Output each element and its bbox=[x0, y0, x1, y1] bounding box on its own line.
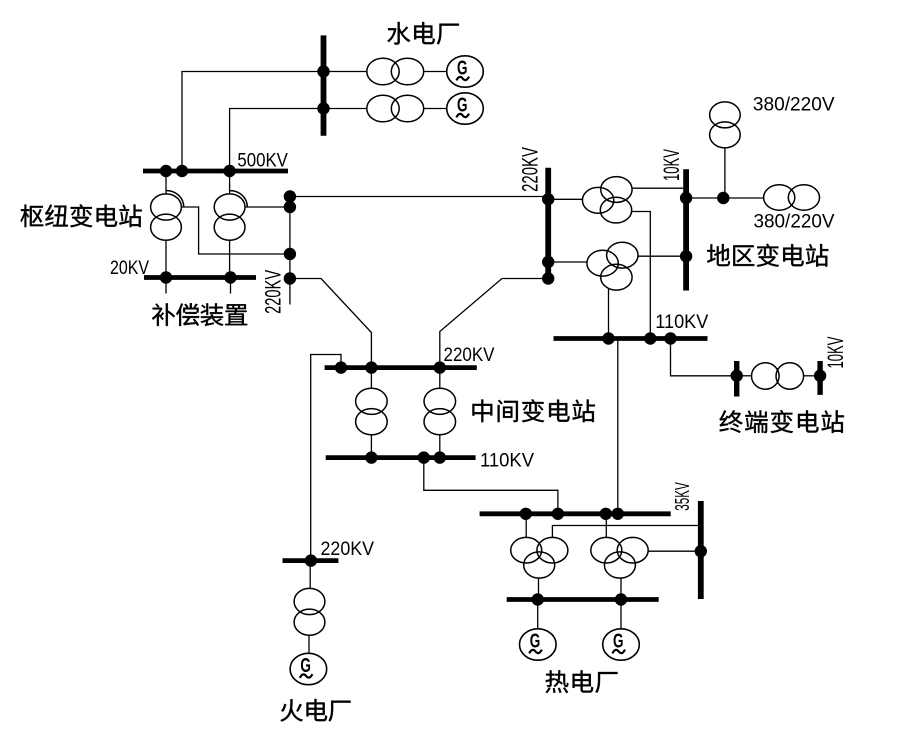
wire terminal bar to transformer bbox=[739, 375, 752, 377]
wire gen bus to G1 bbox=[537, 600, 539, 629]
junction terminal right bbox=[814, 370, 826, 382]
wire middle T2 secondary bbox=[439, 435, 441, 458]
wire 10KV bus to 380/220V transformers bbox=[686, 197, 764, 199]
svg-text:380/220V: 380/220V bbox=[753, 94, 835, 115]
wire regional 110KV to terminal substation bbox=[671, 339, 734, 376]
junction node tertiary T1 bbox=[284, 248, 296, 260]
junction middle 220KV T2 bbox=[434, 361, 446, 373]
transformer hub T1 (autotransformer) bbox=[151, 194, 182, 220]
label 热电厂 (thermal power plant) bbox=[546, 670, 618, 693]
label 火电厂 (fire power plant) bbox=[280, 699, 350, 722]
junction middle 110KV T1 bbox=[365, 451, 377, 463]
transformer hydro unit 2 bbox=[367, 95, 399, 122]
transformer regional lower (3-winding) bbox=[587, 250, 618, 276]
transformer fire plant bbox=[294, 588, 325, 614]
wire regional upper tertiary to 110KV bus bbox=[632, 212, 651, 339]
svg-text:10KV: 10KV bbox=[659, 149, 684, 181]
junction 500KV bus hydro line1 bbox=[176, 165, 188, 177]
svg-text:110KV: 110KV bbox=[655, 311, 708, 333]
wire compensation stub 1 bbox=[165, 278, 167, 294]
wire transformer to right bar bbox=[804, 375, 818, 377]
wire regional lower secondary to 10KV bus bbox=[638, 255, 686, 257]
junction regional 110KV lower-T tertiary bbox=[602, 332, 614, 344]
wire transformer2 to generator2 bbox=[424, 108, 447, 110]
label 中间变电站 (middle substation) bbox=[472, 399, 594, 422]
wire thermal T1 tertiary to gen bus bbox=[538, 578, 540, 599]
junction gen bus G2 bbox=[615, 593, 627, 605]
junction hydro bus branch2 bbox=[317, 102, 329, 114]
junction thermal bus middle feeder bbox=[552, 508, 564, 520]
junction thermal bus T2 bbox=[600, 508, 612, 520]
junction middle 220KV fire feeder bbox=[335, 361, 347, 373]
bus hydro plant vertical busbar bbox=[321, 35, 327, 135]
svg-text:20KV: 20KV bbox=[110, 257, 149, 279]
svg-text:220KV: 220KV bbox=[321, 538, 375, 560]
junction 10KV bus lower bbox=[680, 250, 692, 262]
svg-text:220KV: 220KV bbox=[444, 344, 495, 366]
wire 220KV tie hub to regional substation bbox=[290, 196, 548, 198]
bus regional 110KV busbar bbox=[554, 336, 708, 341]
wire fire bar to transformer bbox=[309, 561, 311, 589]
svg-text:500KV: 500KV bbox=[237, 149, 288, 171]
wire 220KV vertical node line bbox=[289, 197, 291, 305]
junction 500KV bus T1 bbox=[160, 165, 172, 177]
wire hub T1 to 20KV bus bbox=[165, 240, 167, 275]
transformer 380/220V horizontal bbox=[764, 185, 795, 210]
wire thermal T2 tertiary to gen bus bbox=[620, 578, 622, 599]
wire regional 220KV bus to upper transformer bbox=[548, 198, 582, 200]
bus terminal left bar bbox=[734, 361, 739, 397]
junction regional 110KV terminal feeder bbox=[664, 332, 676, 344]
bus thermal generator busbar bbox=[507, 597, 659, 602]
wire middle T2 primary bbox=[439, 368, 441, 389]
wire regional 110KV to thermal plant bbox=[617, 339, 619, 514]
transformer terminal 10KV bbox=[752, 363, 780, 389]
junction node tertiary T2 bbox=[284, 201, 296, 213]
wire regional 220KV bus to lower transformer bbox=[548, 261, 587, 263]
wire compensation stub 2 bbox=[230, 278, 232, 294]
wire regional lower tertiary to 110KV bus bbox=[608, 289, 610, 339]
generator thermal G2 bbox=[603, 629, 640, 660]
junction 380/220V tap bbox=[717, 192, 729, 204]
bus regional 220KV vertical busbar bbox=[545, 168, 551, 281]
wire gen bus to G2 bbox=[620, 600, 622, 629]
junction regional 220KV feeder bbox=[542, 272, 554, 284]
generator fire plant G bbox=[290, 653, 327, 684]
bus middle 220KV busbar bbox=[325, 365, 477, 370]
svg-text:380/220V: 380/220V bbox=[754, 212, 835, 233]
svg-text:10KV: 10KV bbox=[823, 337, 848, 369]
junction middle 220KV T1 bbox=[365, 361, 377, 373]
wire feeder regional to middle 220KV bus bbox=[440, 279, 548, 368]
bus 35KV vertical bar bbox=[698, 501, 704, 599]
junction regional 220KV lower primary bbox=[542, 256, 554, 268]
label 补偿装置 (compensation device) bbox=[152, 303, 247, 326]
svg-text:35KV: 35KV bbox=[672, 482, 694, 511]
junction 500KV bus T2 + hydro line2 bbox=[223, 165, 235, 177]
junction thermal bus regional feeder bbox=[612, 508, 624, 520]
generator hydro G2 bbox=[447, 93, 484, 124]
transformer thermal T1 (3-winding) bbox=[511, 537, 542, 563]
bus 500KV horizontal busbar (hub substation) bbox=[143, 169, 288, 174]
wire 500KV bus to hub transformer T1 bbox=[165, 171, 167, 194]
wire transformer1 to generator1 bbox=[424, 71, 447, 73]
svg-text:220KV: 220KV bbox=[261, 270, 286, 314]
wire thermal T1 secondary to 35KV bar bbox=[552, 526, 700, 538]
wire hydro branch2 to transformer bbox=[324, 108, 367, 110]
label 终端变电站 (terminal substation) bbox=[719, 410, 843, 433]
wire feeder hub node to middle 220KV bus bbox=[290, 279, 372, 368]
wire hub T2 tertiary to 220KV node bbox=[245, 206, 290, 208]
wire middle 110KV to thermal plant bus bbox=[424, 458, 558, 514]
junction 20KV bus T2 bbox=[224, 271, 236, 283]
wire 380/220V vertical transformer lead bbox=[724, 148, 726, 198]
junction 20KV bus T1 bbox=[160, 271, 172, 283]
svg-text:220KV: 220KV bbox=[517, 147, 542, 192]
junction middle 110KV T2 bbox=[434, 451, 446, 463]
junction regional 110KV upper-T tertiary bbox=[644, 332, 656, 344]
wire middle T1 primary bbox=[370, 368, 372, 389]
bus thermal upper busbar bbox=[480, 511, 671, 516]
wire thermal T2 secondary to 35KV bar bbox=[648, 550, 701, 552]
wire thermal T2 primary bbox=[605, 514, 607, 538]
wire hub T2 to 20KV bus bbox=[229, 240, 231, 275]
transformer thermal T2 (3-winding) bbox=[591, 537, 622, 563]
wire middle T1 secondary bbox=[370, 435, 372, 458]
bus fire plant 220KV bar bbox=[283, 558, 339, 563]
svg-text:110KV: 110KV bbox=[480, 450, 534, 472]
label 水电厂 (hydro plant) bbox=[387, 22, 459, 45]
transformer hub T2 (autotransformer) bbox=[214, 194, 245, 220]
transformer middle T2 bbox=[424, 388, 456, 414]
junction thermal bus T1 bbox=[520, 508, 532, 520]
bus regional 10KV vertical busbar bbox=[683, 169, 689, 290]
wire fire plant feeder bbox=[311, 355, 341, 561]
transformer middle T1 bbox=[356, 388, 388, 414]
junction terminal left bbox=[731, 370, 743, 382]
wire hydro branch1 to transformer bbox=[324, 71, 367, 73]
label 地区变电站 (regional substation) bbox=[707, 244, 828, 267]
bus middle 110KV busbar bbox=[326, 455, 476, 460]
junction node 220KV tie bbox=[284, 190, 296, 202]
junction 10KV bus upper bbox=[680, 192, 692, 204]
transformer regional upper (3-winding) bbox=[582, 187, 613, 213]
wire thermal T1 primary bbox=[525, 514, 527, 538]
wire hydro gen2 branch to 500KV bus bbox=[230, 109, 324, 169]
junction node feeder to middle substation bbox=[284, 272, 296, 284]
generator thermal G1 bbox=[520, 629, 557, 660]
generator hydro G1 bbox=[447, 56, 484, 87]
transformer hydro unit 1 bbox=[367, 58, 399, 85]
junction regional 220KV top bbox=[542, 193, 554, 205]
bus terminal right bar bbox=[817, 361, 822, 395]
transformer 380/220V vertical bbox=[710, 102, 741, 128]
wire fire transformer to generator bbox=[308, 635, 310, 653]
junction gen bus G1 bbox=[532, 593, 544, 605]
wire hydro gen1 branch to 500KV bus bbox=[182, 72, 324, 169]
label 枢纽变电站 (hub substation) bbox=[20, 204, 141, 227]
junction fire plant bar bbox=[305, 554, 317, 566]
wire 500KV bus to hub transformer T2 bbox=[229, 171, 231, 194]
junction hydro bus branch1 bbox=[317, 65, 329, 77]
junction middle 110KV thermal feeder bbox=[418, 451, 430, 463]
wire regional upper secondary to 10KV bus bbox=[632, 187, 686, 189]
junction 35KV bar bbox=[695, 545, 707, 557]
bus 20KV busbar bbox=[144, 275, 256, 280]
wire hub T1 tertiary to 220KV node bbox=[181, 207, 290, 254]
